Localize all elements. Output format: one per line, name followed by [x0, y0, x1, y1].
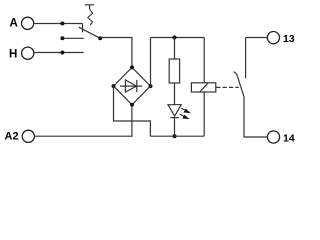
wire bridge left vertex step down [114, 86, 151, 136]
coil diagonal [200, 83, 208, 92]
wire bridge bottom vertex down [131, 105, 133, 137]
junction dot on H wire [60, 51, 64, 55]
svg-text:14: 14 [283, 132, 295, 144]
mechanical link dashed coil to contact [216, 86, 239, 88]
junction dot on A wire [60, 22, 64, 26]
wire switch pivot to bridge top [100, 38, 132, 68]
contact fixed terminal vertical [245, 38, 247, 79]
manual actuator T handle [85, 5, 94, 9]
middle fixed contact stub [61, 37, 84, 39]
LED cathode bar [170, 117, 179, 119]
dot on middle stub [60, 36, 64, 40]
terminal A [22, 17, 34, 29]
wire bridge right vertex up [150, 38, 152, 87]
bridge right node dot [149, 84, 153, 88]
terminal A2 [22, 130, 34, 142]
wire terminal A2 to bridge [35, 135, 133, 137]
bridge left node dot [112, 84, 116, 88]
wire rail to resistor [174, 38, 176, 60]
wire contact to terminal 14 [244, 96, 267, 137]
bridge top node dot [130, 65, 134, 69]
bridge rectifier diamond [114, 67, 151, 104]
terminal H [22, 47, 34, 59]
svg-text:H: H [9, 48, 17, 60]
LED triangle [168, 105, 181, 116]
terminal 13 [267, 31, 279, 43]
junction dot bottom bus [173, 134, 177, 138]
wire LED to bottom bus [174, 118, 176, 137]
bottom bus wire [150, 135, 204, 137]
junction dot top rail [173, 36, 177, 40]
contact lever NO [237, 74, 244, 97]
wire coil to bottom bus [203, 92, 205, 136]
wire resistor to LED [174, 83, 176, 105]
bridge diode axis [120, 85, 142, 87]
svg-text:A2: A2 [5, 130, 19, 142]
bridge bottom node dot [130, 103, 134, 107]
terminal 14 [267, 131, 279, 143]
fixed contact tick A [82, 24, 84, 33]
wire top rail [151, 37, 205, 39]
resistor R1 [169, 59, 179, 83]
LED emission arrow 1 [181, 108, 191, 113]
svg-text:13: 13 [283, 33, 295, 45]
svg-text:A: A [10, 18, 18, 30]
actuator spring zigzag [88, 9, 93, 25]
wire terminal A to selector contact [34, 23, 83, 25]
switch pivot dot [98, 36, 102, 40]
selector switch lever S1 [79, 27, 100, 38]
contact lever barb [234, 72, 237, 74]
LED emission arrow 2 [180, 114, 190, 119]
wire rail to coil [203, 38, 205, 83]
wire terminal H stub [34, 52, 83, 54]
wire contact to terminal 13 [246, 37, 267, 39]
relay coil K1 [191, 83, 215, 92]
bridge diode cathode bar [136, 80, 138, 92]
bridge diode triangle [125, 80, 136, 92]
